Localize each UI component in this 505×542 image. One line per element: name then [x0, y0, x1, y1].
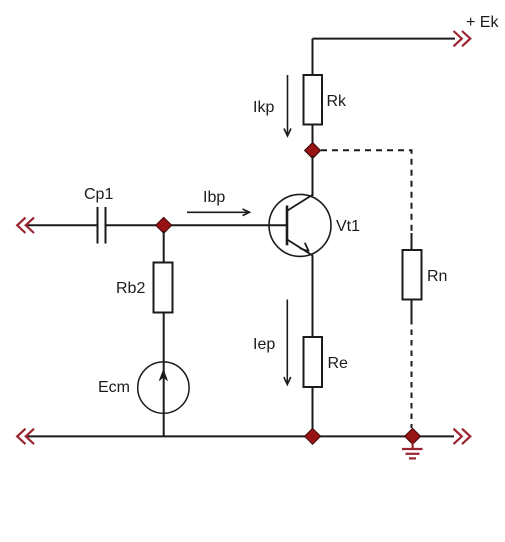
svg-text:Ibp: Ibp — [203, 189, 225, 206]
wire input left segment — [26, 224, 97, 226]
source Ecm — [138, 362, 189, 413]
svg-text:Rn: Rn — [427, 268, 447, 285]
connector chevrons bottom left terminal — [17, 429, 34, 444]
node collector junction — [305, 143, 321, 159]
node ground rail junction — [405, 428, 421, 444]
connector chevrons input terminal — [17, 218, 34, 233]
svg-text:Cp1: Cp1 — [84, 186, 113, 203]
svg-text:Ikp: Ikp — [253, 99, 274, 116]
svg-text:Vt1: Vt1 — [336, 218, 360, 235]
wire capacitor to base — [107, 224, 288, 226]
ground — [402, 443, 423, 458]
current arrow Ikp — [284, 75, 291, 136]
wire Rk to node — [312, 125, 314, 146]
wire collector supply drop — [312, 39, 314, 76]
wire dashed Rn to ground node — [411, 319, 413, 428]
source Ecm arrow — [159, 370, 167, 381]
connector chevrons + Ek terminal — [454, 31, 471, 46]
wire transistor emitter to Re — [312, 256, 314, 339]
wire node to Rb2 — [163, 231, 165, 263]
wire node to transistor collector — [312, 156, 314, 196]
svg-text:Rk: Rk — [327, 93, 348, 110]
resistor Rb2 — [154, 263, 173, 313]
wire Re to bottom rail — [312, 387, 314, 437]
current arrow Iep — [284, 300, 291, 385]
resistor Re — [304, 337, 323, 387]
node emitter rail junction — [305, 428, 321, 444]
wire Rb2 to Ecm — [163, 313, 165, 438]
svg-text:+ Ek: + Ek — [466, 14, 499, 31]
svg-text:Iep: Iep — [253, 336, 275, 353]
svg-text:Re: Re — [328, 355, 349, 372]
resistor Rn — [403, 250, 422, 300]
wire Rn bottom lead — [411, 300, 413, 320]
svg-text:Rb2: Rb2 — [116, 280, 145, 297]
connector chevrons bottom right terminal — [454, 429, 471, 444]
svg-text:Ecm: Ecm — [98, 379, 130, 396]
wire top rail — [313, 38, 456, 40]
node base junction — [156, 217, 172, 233]
capacitor Cp1 — [98, 207, 106, 244]
transistor Vt1 — [269, 194, 331, 256]
wire Rn top lead — [411, 233, 413, 251]
current arrow Ibp — [187, 209, 250, 216]
wire dashed feedback horizontal+vertical — [321, 150, 412, 234]
resistor Rk — [304, 75, 323, 125]
wire bottom rail — [26, 435, 454, 437]
